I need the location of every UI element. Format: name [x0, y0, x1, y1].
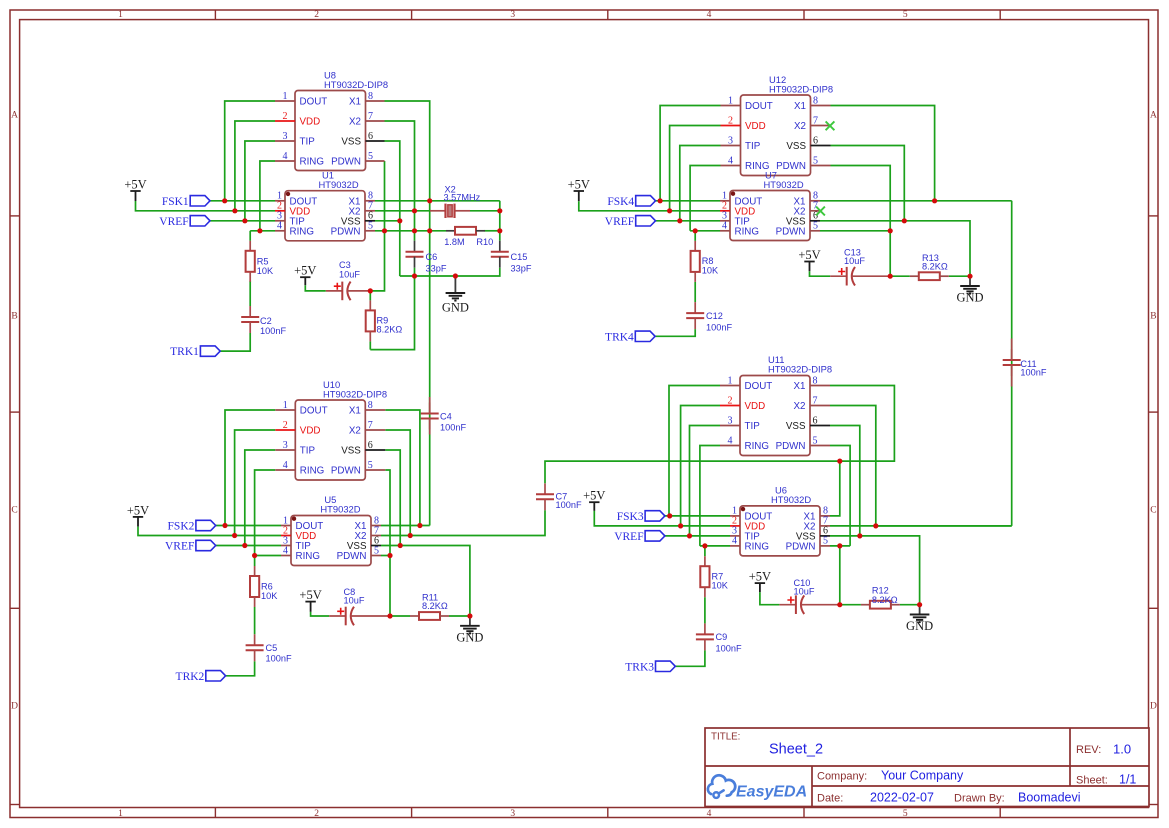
svg-text:X1: X1 [794, 381, 806, 392]
svg-text:HT9032D: HT9032D [319, 179, 359, 190]
svg-text:4: 4 [728, 435, 733, 446]
net flag FSK2 [168, 520, 216, 532]
svg-text:C5: C5 [266, 643, 278, 653]
svg-text:4: 4 [707, 10, 712, 20]
junction [667, 208, 672, 213]
svg-text:1/1: 1/1 [1119, 773, 1136, 787]
svg-text:GND: GND [906, 619, 933, 633]
svg-text:GND: GND [442, 301, 469, 315]
svg-text:+5V: +5V [294, 264, 316, 278]
wire [311, 612, 330, 616]
junction [837, 602, 842, 607]
svg-text:PDWN: PDWN [776, 161, 806, 172]
svg-text:2022-02-07: 2022-02-07 [870, 791, 934, 805]
capacitor C4 100nF [421, 403, 467, 433]
svg-text:5: 5 [368, 460, 373, 471]
wire [249, 281, 251, 306]
svg-text:100nF: 100nF [260, 326, 286, 336]
svg-text:DOUT: DOUT [745, 381, 773, 392]
svg-text:4: 4 [707, 809, 712, 819]
power +5V [127, 503, 149, 526]
pin 2 (VDD) [275, 420, 320, 437]
wire [381, 555, 390, 557]
power +5V [798, 248, 820, 271]
svg-text:10K: 10K [702, 265, 719, 275]
resistor R9 8.2KΩ [366, 300, 403, 341]
pin 1 (DOUT) [275, 91, 327, 108]
svg-text:3: 3 [283, 131, 288, 142]
wire [414, 268, 416, 276]
capacitor C10 10uF (electrolytic) [779, 578, 839, 614]
net flag TRK1 [170, 346, 220, 358]
svg-text:5: 5 [813, 435, 818, 446]
svg-text:1.8M: 1.8M [444, 237, 464, 247]
svg-text:X2: X2 [349, 426, 361, 437]
capacitor C5 100nF [246, 634, 292, 663]
pin 4 (RING) [275, 460, 324, 477]
crystal X2 3.57MHz [430, 184, 481, 218]
svg-text:Date:: Date: [817, 793, 843, 805]
capacitor C11 100nF [1003, 349, 1021, 376]
svg-text:4: 4 [277, 221, 282, 232]
svg-text:1: 1 [283, 91, 288, 102]
pin 8 (X1) [794, 191, 820, 208]
pin 3 (TIP) [275, 211, 305, 228]
svg-text:10uF: 10uF [344, 596, 365, 606]
pin 6 (VSS) [786, 415, 830, 432]
no-connect X [826, 121, 835, 130]
wire [810, 271, 831, 276]
svg-text:TIP: TIP [300, 137, 316, 148]
svg-text:VREF: VREF [165, 541, 194, 553]
wire [690, 166, 720, 231]
wire [690, 426, 721, 536]
junction [232, 208, 237, 213]
svg-text:5: 5 [903, 10, 908, 20]
wire [400, 268, 500, 276]
svg-text:B: B [11, 312, 17, 322]
wire [385, 410, 420, 526]
svg-text:5: 5 [823, 536, 828, 547]
pin 6 (VSS) [341, 131, 384, 148]
svg-text:C4: C4 [440, 412, 452, 422]
svg-text:A: A [11, 111, 18, 121]
junction [398, 543, 403, 548]
svg-text:VREF: VREF [614, 531, 643, 543]
svg-text:1: 1 [728, 95, 733, 106]
svg-text:VSS: VSS [786, 421, 806, 432]
wire [831, 146, 905, 221]
svg-text:8.2KΩ: 8.2KΩ [422, 601, 448, 611]
wire [381, 546, 470, 617]
pin 6 (VSS) [341, 440, 385, 457]
junction [427, 228, 432, 233]
pin 2 (VDD) [730, 516, 765, 533]
wire [216, 545, 281, 547]
wire [390, 615, 410, 617]
capacitor C3 10uF (electrolytic) [326, 260, 371, 300]
pin 8 (X1) [794, 95, 830, 112]
svg-text:VSS: VSS [341, 446, 361, 457]
wire [830, 536, 920, 605]
junction [397, 218, 402, 223]
net flag TRK2 [176, 671, 226, 683]
svg-text:7: 7 [813, 115, 818, 126]
svg-text:HT9032D-DIP8: HT9032D-DIP8 [323, 389, 387, 400]
svg-text:5: 5 [374, 545, 379, 556]
pin 7 (X2) [794, 115, 830, 132]
wire [669, 386, 720, 516]
wire [429, 201, 431, 526]
pin 2 (VDD) [720, 201, 755, 218]
wire [656, 200, 721, 202]
svg-text:RING: RING [745, 441, 770, 452]
svg-text:HT9032D: HT9032D [771, 494, 811, 505]
svg-text:Sheet_2: Sheet_2 [769, 742, 823, 758]
svg-text:B: B [1150, 312, 1156, 322]
junction [467, 613, 472, 618]
svg-text:C3: C3 [339, 260, 351, 270]
wire [680, 146, 721, 221]
junction [917, 602, 922, 607]
pin 3 (TIP) [721, 135, 761, 152]
svg-text:HT9032D: HT9032D [764, 179, 804, 190]
svg-text:C2: C2 [260, 316, 272, 326]
junction [497, 208, 502, 213]
svg-text:FSK4: FSK4 [607, 196, 634, 208]
pin 8 (X1) [355, 515, 381, 532]
net flag FSK4 [607, 196, 655, 208]
svg-text:Boomadevi: Boomadevi [1018, 791, 1081, 805]
wire [245, 450, 275, 546]
ground [906, 605, 933, 634]
wire [694, 231, 696, 241]
pin 4 (RING) [730, 536, 769, 553]
svg-text:VREF: VREF [159, 216, 188, 228]
pin 4 (RING) [281, 545, 320, 562]
wire [375, 210, 430, 212]
capacitor C9 100nF [696, 623, 742, 653]
svg-text:8: 8 [813, 375, 818, 386]
junction [368, 288, 373, 293]
wire [235, 121, 275, 211]
svg-text:5: 5 [813, 221, 818, 232]
svg-text:DOUT: DOUT [745, 101, 773, 112]
pin 5 (PDWN) [331, 460, 385, 477]
wire [830, 545, 850, 547]
pin 1 (DOUT) [275, 400, 327, 417]
svg-text:VDD: VDD [745, 401, 766, 412]
net flag TRK4 [605, 331, 655, 343]
wire [210, 200, 275, 202]
svg-text:PDWN: PDWN [786, 542, 816, 553]
wire [375, 230, 446, 232]
svg-text:TRK3: TRK3 [625, 661, 654, 673]
svg-text:+5V: +5V [127, 503, 149, 517]
svg-text:HT9032D-DIP8: HT9032D-DIP8 [324, 79, 388, 90]
svg-text:10uF: 10uF [339, 270, 360, 280]
pin 5 (PDWN) [776, 155, 830, 172]
wire [830, 426, 860, 536]
pin 8 (X1) [349, 191, 375, 208]
IC U1 (HT9032D) [275, 169, 375, 240]
pin 8 (X1) [804, 506, 830, 523]
wire [385, 430, 410, 536]
wire [381, 510, 545, 535]
pin 2 (VDD) [721, 115, 766, 132]
wire [235, 430, 276, 536]
EasyEDA logo [708, 775, 807, 800]
junction [242, 218, 247, 223]
svg-text:7: 7 [813, 395, 818, 406]
svg-text:+5V: +5V [568, 178, 590, 192]
junction [222, 198, 227, 203]
svg-text:4: 4 [283, 545, 288, 556]
svg-text:10uF: 10uF [844, 256, 865, 266]
svg-text:6: 6 [368, 440, 373, 451]
junction [412, 228, 417, 233]
svg-text:RING: RING [290, 226, 315, 237]
svg-text:3: 3 [728, 415, 733, 426]
pin 5 (PDWN) [776, 435, 830, 452]
svg-text:PDWN: PDWN [331, 226, 361, 237]
svg-text:RING: RING [735, 226, 760, 237]
svg-text:X2: X2 [794, 401, 806, 412]
wire [216, 525, 281, 527]
wire [831, 166, 891, 277]
pin 3 (TIP) [275, 440, 315, 457]
svg-text:C9: C9 [716, 632, 728, 642]
IC U11 (HT9032D-DIP8) [720, 354, 832, 456]
pin 2 (VDD) [281, 525, 316, 542]
pin 6 (VSS) [347, 535, 381, 552]
pin 7 (X2) [349, 420, 385, 437]
junction [857, 533, 862, 538]
svg-text:7: 7 [368, 420, 373, 431]
wire [890, 275, 910, 277]
pin 6 (VSS) [796, 526, 830, 543]
pin 7 (X2) [355, 525, 381, 542]
svg-text:+5V: +5V [749, 570, 771, 584]
junction [873, 523, 878, 528]
svg-text:2: 2 [283, 111, 288, 122]
net flag VREF [159, 216, 210, 228]
svg-text:HT9032D-DIP8: HT9032D-DIP8 [768, 364, 832, 375]
svg-text:REV:: REV: [1076, 744, 1101, 756]
junction [888, 274, 893, 279]
svg-text:C12: C12 [706, 311, 723, 321]
wire [820, 230, 890, 232]
pin 3 (TIP) [281, 535, 311, 552]
wire [226, 661, 255, 676]
pin 6 (VSS) [786, 211, 820, 228]
svg-text:RING: RING [300, 157, 325, 168]
pin 2 (VDD) [275, 201, 310, 218]
svg-text:D: D [11, 702, 18, 712]
wire [545, 386, 894, 484]
wire [499, 201, 501, 241]
wire [385, 121, 415, 241]
IC U5 (HT9032D) [281, 494, 381, 566]
power +5V [568, 178, 590, 202]
pin 7 (X2) [794, 201, 820, 218]
svg-text:6: 6 [368, 131, 373, 142]
wire [694, 282, 696, 302]
svg-text:RING: RING [745, 542, 770, 553]
svg-text:TRK2: TRK2 [176, 671, 205, 683]
svg-text:4: 4 [728, 155, 733, 166]
net flag VREF [614, 531, 665, 543]
wire [369, 291, 371, 301]
wire [1011, 201, 1013, 526]
wire [260, 161, 275, 231]
resistor R12 8.2KΩ [861, 601, 900, 609]
svg-text:+5V: +5V [798, 248, 820, 262]
ground [442, 276, 469, 315]
wire [138, 527, 281, 536]
svg-text:5: 5 [813, 155, 818, 166]
pin 1 (DOUT) [720, 191, 762, 208]
wire [449, 615, 470, 617]
wire [249, 231, 251, 241]
svg-text:DOUT: DOUT [300, 406, 328, 417]
svg-text:33pF: 33pF [511, 264, 532, 274]
svg-text:100nF: 100nF [440, 423, 466, 433]
pin 4 (RING) [275, 221, 314, 238]
svg-text:5: 5 [368, 221, 373, 232]
junction [257, 228, 262, 233]
wire [370, 276, 414, 350]
capacitor C8 10uF (electrolytic) [329, 587, 390, 625]
wire [830, 461, 840, 516]
svg-text:C: C [1150, 506, 1156, 516]
junction [412, 273, 417, 278]
junction [837, 459, 842, 464]
junction [387, 613, 392, 618]
pin 1 (DOUT) [720, 375, 772, 392]
IC U8 (HT9032D-DIP8) [275, 70, 388, 171]
wire [820, 221, 970, 276]
svg-text:GND: GND [956, 291, 983, 305]
wire [660, 106, 720, 201]
wire [225, 101, 275, 201]
svg-text:PDWN: PDWN [337, 551, 367, 562]
svg-text:VSS: VSS [341, 137, 361, 148]
svg-text:TRK4: TRK4 [605, 331, 634, 343]
svg-text:4: 4 [283, 460, 288, 471]
pin 7 (X2) [794, 395, 830, 412]
svg-text:6: 6 [813, 135, 818, 146]
junction [888, 228, 893, 233]
pin 7 (X2) [349, 111, 384, 128]
ground [956, 276, 983, 304]
svg-text:4: 4 [283, 151, 288, 162]
junction [222, 523, 227, 528]
pin 3 (TIP) [730, 526, 760, 543]
wire [485, 230, 500, 232]
pin 3 (TIP) [275, 131, 315, 148]
junction [837, 543, 842, 548]
net flag TRK3 [625, 661, 675, 673]
wire [385, 101, 430, 201]
wire [760, 592, 780, 605]
svg-text:X1: X1 [349, 97, 361, 108]
svg-text:5: 5 [368, 151, 373, 162]
title block [705, 728, 1149, 807]
pin 1 (DOUT) [730, 506, 772, 523]
junction [677, 218, 682, 223]
wire [470, 210, 500, 212]
svg-text:100nF: 100nF [556, 500, 582, 510]
pin 4 (RING) [275, 151, 324, 168]
wire [830, 446, 850, 546]
IC U12 (HT9032D-DIP8) [721, 74, 834, 176]
svg-text:4: 4 [732, 536, 737, 547]
wire [255, 470, 276, 566]
svg-text:2: 2 [314, 809, 319, 819]
pin 7 (X2) [349, 201, 375, 218]
wire [876, 525, 1012, 527]
pin 5 (PDWN) [331, 221, 375, 238]
svg-text:TIP: TIP [745, 141, 761, 152]
svg-text:X2: X2 [794, 121, 806, 132]
svg-text:A: A [1150, 111, 1157, 121]
pin 6 (VSS) [786, 135, 830, 152]
junction [427, 198, 432, 203]
junction [687, 533, 692, 538]
wire [831, 106, 935, 201]
pin 8 (X1) [349, 91, 384, 108]
no-connect X [816, 207, 825, 216]
svg-text:X1: X1 [794, 101, 806, 112]
svg-text:Sheet:: Sheet: [1076, 775, 1108, 787]
svg-text:VSS: VSS [786, 141, 806, 152]
wire [840, 604, 861, 606]
power +5V [749, 570, 771, 593]
svg-text:PDWN: PDWN [331, 157, 361, 168]
svg-text:DOUT: DOUT [300, 97, 328, 108]
wire [681, 406, 720, 526]
power +5V [299, 588, 321, 612]
svg-text:HT9032D-DIP8: HT9032D-DIP8 [769, 84, 833, 95]
capacitor C15 33pF [491, 241, 532, 274]
wire [700, 545, 730, 547]
svg-text:100nF: 100nF [706, 323, 732, 333]
pin 2 (VDD) [720, 395, 765, 412]
power +5V [124, 178, 146, 202]
capacitor C12 100nF [686, 302, 732, 332]
svg-text:33pF: 33pF [426, 264, 447, 274]
svg-text:1.0: 1.0 [1113, 742, 1131, 757]
power +5V [294, 264, 316, 286]
svg-text:PDWN: PDWN [331, 466, 361, 477]
power +5V [583, 489, 605, 511]
pin 1 (DOUT) [721, 95, 773, 112]
svg-text:2: 2 [283, 420, 288, 431]
wire [665, 535, 730, 537]
svg-text:EasyEDA: EasyEDA [736, 783, 807, 800]
junction [667, 513, 672, 518]
IC U6 (HT9032D) [730, 485, 830, 556]
svg-text:VREF: VREF [605, 216, 634, 228]
wire [220, 333, 250, 351]
svg-text:3: 3 [728, 135, 733, 146]
junction [678, 523, 683, 528]
svg-text:FSK2: FSK2 [168, 521, 195, 533]
svg-text:PDWN: PDWN [776, 441, 806, 452]
junction [382, 228, 387, 233]
junction [497, 228, 502, 233]
